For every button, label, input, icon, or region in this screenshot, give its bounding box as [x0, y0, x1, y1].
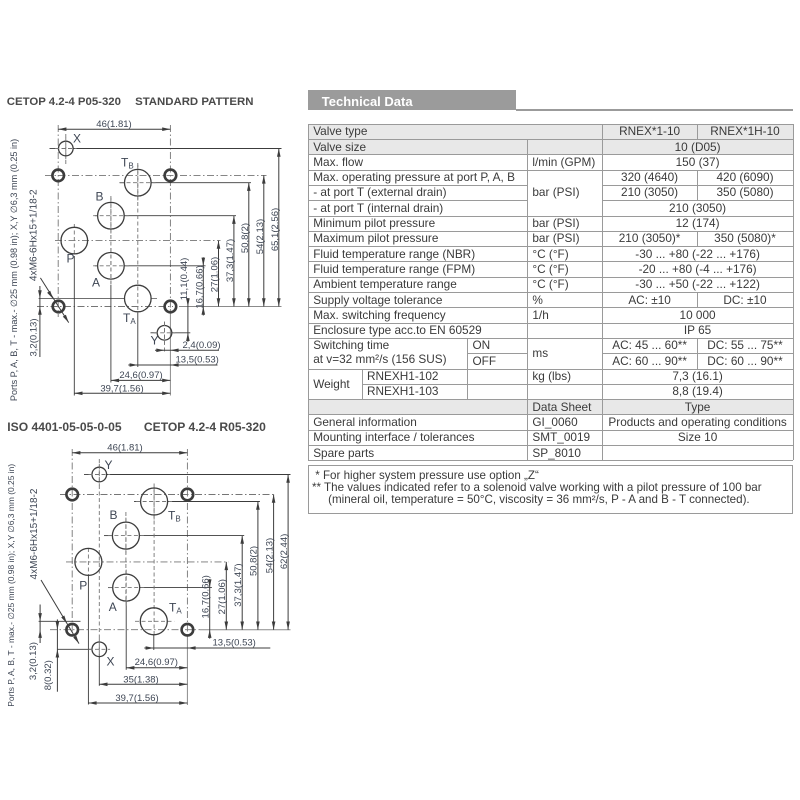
centerline B/A vertical: [110, 196, 112, 285]
dimension 37,3(1.47) (d2): [241, 536, 243, 630]
centerline top bolt row (d2): [60, 494, 276, 496]
dimension 54(2.13) (d2): [273, 495, 275, 630]
port X (d2): [92, 642, 107, 657]
title drawing 1: [7, 96, 121, 108]
centerline P vertical: [73, 224, 75, 256]
bolt hole bottom-right (d2): [182, 624, 194, 636]
wire TA port level left (d2): [39, 620, 81, 622]
svg-text:4xM6-6Hx15+1/18-2: 4xM6-6Hx15+1/18-2: [29, 488, 40, 579]
wire A port level (d2): [108, 587, 113, 589]
svg-text:39,7(1.56): 39,7(1.56): [100, 383, 143, 394]
svg-text:37,3(1.47): 37,3(1.47): [233, 563, 244, 606]
svg-text:2,4(0.09): 2,4(0.09): [183, 340, 221, 351]
svg-text:8(0.32): 8(0.32): [43, 660, 54, 690]
centerline TA port level (d2): [135, 620, 174, 622]
bolt hole top-right (d2): [182, 489, 194, 501]
svg-text:50,8(2): 50,8(2): [240, 223, 251, 253]
title drawing 2: [7, 420, 121, 434]
centerline top bolt row: [45, 174, 267, 176]
centerline P vertical (d2): [87, 548, 89, 576]
dimension 11,1(0.44): [187, 298, 189, 342]
svg-text:39,7(1.56): 39,7(1.56): [115, 693, 158, 704]
dimension 13,5(0.53) (d2): [144, 647, 270, 649]
svg-text:4xM6-6Hx15+1/18-2: 4xM6-6Hx15+1/18-2: [28, 189, 39, 281]
svg-text:B: B: [96, 190, 104, 204]
dimension 50,8(2) (d2): [257, 502, 259, 630]
svg-text:X: X: [73, 132, 81, 146]
dimension 50,8(2): [248, 183, 250, 307]
bolt hole top-left (d2): [66, 489, 78, 501]
svg-text:B: B: [110, 508, 118, 522]
port TA: [125, 285, 152, 312]
svg-text:Ports P, A, B, T - max.- ∅25 m: Ports P, A, B, T - max.- ∅25 mm (0.98 in…: [9, 139, 19, 401]
svg-text:27(1.06): 27(1.06): [217, 579, 228, 614]
svg-text:27(1.06): 27(1.06): [210, 257, 221, 292]
wire right vertical extension: [169, 309, 171, 396]
wire Y port level: [151, 332, 158, 334]
bolt hole bottom-left (d2): [66, 624, 78, 636]
svg-text:37,3(1.47): 37,3(1.47): [225, 239, 236, 282]
svg-text:A: A: [109, 600, 117, 614]
port Y (d2): [92, 467, 107, 482]
centerline B/A vertical (d2): [125, 512, 127, 602]
svg-text:54(2.13): 54(2.13): [264, 538, 275, 573]
svg-text:P: P: [67, 252, 75, 266]
wire A port level: [95, 265, 97, 267]
bolt hole top-right: [165, 170, 177, 182]
svg-text:13,5(0.53): 13,5(0.53): [213, 638, 256, 649]
dimension 39,7(1.56) (d2): [88, 702, 187, 704]
centerline Y vertical: [164, 322, 166, 353]
svg-text:54(2.13): 54(2.13): [255, 219, 266, 254]
port P: [61, 227, 88, 254]
svg-text:16,7(0.66): 16,7(0.66): [201, 575, 212, 618]
dimension 46(1.81) top: [58, 128, 170, 130]
svg-text:TB: TB: [168, 509, 181, 524]
svg-text:46(1.81): 46(1.81): [96, 119, 131, 130]
svg-text:11,1(0.44): 11,1(0.44): [179, 258, 190, 301]
dimension 62(2.44) (d2): [287, 475, 289, 630]
header rule: [516, 109, 793, 110]
dimension 8(0.32) (d2): [56, 619, 58, 691]
drawing 1: CETOP 4.2-4 P05-320 mounting pattern: [9, 119, 282, 401]
centerline X vertical: [65, 134, 67, 164]
dimension 39,7(1.56): [74, 392, 170, 394]
svg-text:3,2(0.13): 3,2(0.13): [28, 642, 39, 680]
drawing 2: ISO 4401-05-05-0-05 / CETOP 4.2-4 R05-320 mounting pattern: [6, 443, 290, 707]
wire P vertical extension (d2): [87, 576, 89, 705]
wire T vertical extension: [137, 313, 139, 367]
wire Y port level (d2): [84, 474, 92, 476]
wire A vertical extension: [110, 285, 112, 383]
port TB: [125, 169, 152, 196]
wire right vertical extension (d2): [186, 634, 188, 705]
wire TB port level (d2): [134, 501, 140, 503]
dimension 24,6(0.97): [111, 379, 170, 381]
svg-text:TA: TA: [123, 311, 136, 326]
wire B port level: [95, 215, 97, 217]
port B (d2): [112, 522, 139, 549]
wire TA port level: [39, 298, 125, 300]
centerline bottom bolt row (d2): [50, 629, 200, 631]
centerline bottom bolt row: [37, 306, 173, 308]
wire baseline extension right: [179, 306, 282, 308]
dimension 3,2(0.13) (d2): [39, 605, 41, 644]
header bar Technical Data: [308, 90, 515, 111]
leader 4xM6 bolt callout (d2): [41, 580, 79, 644]
svg-text:TA: TA: [169, 601, 182, 616]
technical data table: [308, 124, 793, 461]
wire T vertical extension (d2): [153, 635, 155, 650]
dimension 13,5(0.53): [128, 364, 217, 366]
bolt hole bottom-right: [165, 301, 177, 313]
centerline left vertical: [57, 125, 59, 317]
wire TB port level: [120, 182, 125, 184]
svg-text:P: P: [79, 579, 87, 593]
dimension 2,4(0.09): [155, 349, 219, 351]
centerline P port level (d2): [66, 561, 228, 563]
wire A vertical extension (d2): [125, 602, 127, 670]
svg-text:TB: TB: [121, 156, 134, 171]
centerline T vertical (d2): [153, 488, 155, 635]
centerline T vertical: [137, 163, 139, 313]
dimension 35(1.38) (d2): [99, 683, 187, 685]
wire X port level: [50, 148, 59, 150]
svg-text:50,8(2): 50,8(2): [249, 546, 260, 576]
svg-text:Y: Y: [151, 334, 159, 348]
wire P vertical extension: [73, 256, 75, 396]
svg-text:24,6(0.97): 24,6(0.97): [119, 370, 162, 381]
footnote box: [308, 465, 793, 515]
dimension 3,2(0.13) left: [39, 286, 41, 357]
svg-text:24,6(0.97): 24,6(0.97): [135, 657, 178, 668]
port P (d2): [75, 548, 102, 575]
port A: [98, 252, 125, 279]
centerline right vertical (d2): [186, 449, 188, 634]
svg-text:Y: Y: [105, 458, 113, 472]
svg-text:46(1.81): 46(1.81): [107, 443, 142, 454]
wire X port level (d2): [57, 648, 92, 650]
svg-text:3,2(0.13): 3,2(0.13): [29, 318, 40, 356]
svg-text:A: A: [92, 276, 100, 290]
centerline right vertical: [169, 125, 171, 309]
svg-text:16,7(0.66): 16,7(0.66): [194, 265, 205, 308]
bolt hole top-left: [52, 170, 64, 182]
bolt hole bottom-left: [53, 301, 65, 313]
port TB (d2): [141, 488, 168, 515]
dimension 46(1.81) (d2): [72, 452, 187, 454]
dimension 24,6(0.97) (d2): [126, 667, 187, 669]
port TA (d2): [140, 608, 167, 635]
svg-text:62(2.44): 62(2.44): [279, 534, 290, 569]
dimension 65,1(2.56): [278, 149, 280, 307]
dimension 27(1.06): [218, 241, 220, 307]
centerline P port level: [55, 240, 221, 242]
dimension 16,7(0.66): [202, 257, 204, 315]
dimension 37,3(1.47): [233, 216, 235, 307]
svg-text:13,5(0.53): 13,5(0.53): [176, 355, 219, 366]
svg-text:35(1.38): 35(1.38): [123, 675, 158, 686]
wire baseline extension right (d2): [200, 629, 291, 631]
wire B port level (d2): [104, 535, 112, 537]
port B: [98, 202, 125, 229]
dimension 54(2.13): [263, 175, 265, 306]
port Y: [157, 326, 172, 341]
dimension 16,7(0.66) (d2): [209, 579, 211, 639]
centerline X/Y vertical (d2): [98, 459, 100, 657]
leader 4xM6 bolt callout: [40, 278, 68, 323]
dimension 27(1.06) (d2): [225, 562, 227, 630]
port X: [59, 141, 74, 156]
port A (d2): [113, 574, 140, 601]
svg-text:Ports P, A, B, T - max.- ∅25 m: Ports P, A, B, T - max.- ∅25 mm (0.98 in…: [6, 464, 16, 707]
centerline left vertical (d2): [71, 449, 73, 638]
svg-text:65,1(2.56): 65,1(2.56): [270, 208, 281, 251]
svg-text:X: X: [107, 655, 115, 669]
wire X vertical extension (d2): [98, 657, 100, 686]
